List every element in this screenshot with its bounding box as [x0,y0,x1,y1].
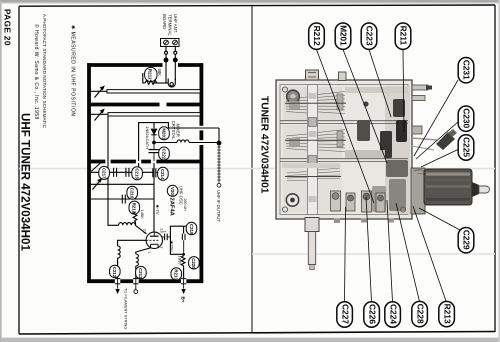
top mounting screw [306,70,319,80]
capacitor grid [122,195,125,204]
svg-text:R213: R213 [174,269,179,280]
mixer probe loop [139,123,169,161]
capacitor C222 [149,144,160,161]
svg-text:C230: C230 [462,108,472,128]
svg-text:R213: R213 [442,304,452,324]
callout C230 [458,106,474,131]
chassis bottom tabs [334,219,394,224]
svg-text:M201: M201 [339,25,348,46]
capacitor trimmer 2 [126,168,129,177]
feedthrough cap 2 [133,279,138,290]
svg-text:R211: R211 [399,26,409,46]
svg-text:C222: C222 [161,149,166,160]
svg-text:C231: C231 [462,60,472,80]
wire line2 left drop [108,116,119,225]
tuned line 1 [91,90,201,93]
terminal filament arrow [116,289,120,293]
measured note [70,25,76,117]
label UHF OSC [178,186,183,205]
svg-text:R211: R211 [148,69,153,80]
chassis rail 2 [280,159,408,162]
right panel title TUNER 472V034H01 [259,96,270,194]
callout C227 [337,302,353,327]
label 1N82A CATH [145,126,150,149]
top edge shading [282,87,408,168]
wire filament left [118,240,147,246]
svg-text:UHF OSC: UHF OSC [178,186,183,205]
wire leader C229 [419,208,460,230]
svg-text:A PHOTOFACT STANDARD NOTATION: A PHOTOFACT STANDARD NOTATION SCHEMATIC [42,14,47,129]
callout M201 [159,127,170,140]
callout R213 chassis [439,301,455,326]
svg-text:.1: .1 [163,230,167,233]
capacitor C214 plates [153,168,158,177]
callout C223 chassis [361,23,377,49]
terminal filament ring [134,290,138,294]
bottom trimmers [331,191,386,212]
svg-text:C223: C223 [365,26,375,46]
wire leader R211 [403,50,404,133]
coil osc plate [119,223,147,234]
wire leader R213 chassis [413,206,446,301]
node UHF IF OUTPUT [216,190,221,222]
callout V201 [167,185,178,198]
svg-text:B+: B+ [181,297,186,303]
callout C216 [127,186,138,199]
svg-text:BOARD: BOARD [162,14,167,29]
svg-text:✱70V: ✱70V [169,241,174,252]
label 2AF4A [168,198,174,217]
resistor R212 zigzag [133,212,137,225]
callout M201 chassis [335,23,351,49]
svg-text:C212: C212 [112,267,117,278]
terminal pins right [412,85,432,134]
svg-text:1: 1 [147,252,151,254]
node IF jack [217,141,221,145]
wire ant left lead [164,47,168,84]
svg-text:C225: C225 [462,137,472,157]
tuning arrow osc [93,179,102,190]
copyright line [33,24,40,120]
svg-text:C228: C228 [415,304,425,324]
wire IF output tap [168,128,219,141]
svg-text:C215: C215 [134,168,139,179]
chassis top small tab [339,72,347,81]
tuning rod row1 [285,103,346,176]
callout C229 [458,228,474,253]
shield box outline [87,63,203,283]
wire cathode lead [136,248,151,254]
svg-text:C227: C227 [340,304,350,324]
wire divider tie [91,163,101,172]
svg-text:CRYSTAL: CRYSTAL [171,121,176,141]
wire leader M201 [343,50,387,164]
callout C225 [458,135,474,160]
callout R212 chassis [309,23,325,49]
svg-text:C226: C226 [367,304,377,324]
UHF ant terminal board label [162,14,178,36]
wire leader C223 [369,50,391,118]
svg-text:✱ MEASURED IN UHF POSITION: ✱ MEASURED IN UHF POSITION [70,25,76,117]
wire plate loop [170,226,186,254]
callout R213 [171,268,182,281]
callout C228 [412,301,428,326]
wire ant right lead [173,47,177,81]
value 148K [140,210,145,220]
callout R211 chassis [395,23,411,49]
page number text PAGE 20 [3,9,12,46]
capacitor grid cap [163,234,171,241]
front panel hole [286,194,298,206]
label 260 uH [183,199,187,212]
svg-text:C216: C216 [130,188,135,199]
svg-text:C229: C229 [462,230,472,250]
tuning arrow line 2 [95,110,104,121]
tuned line 2 [91,113,201,116]
feedthrough cap 3 [181,279,186,289]
coil filament choke 1 [118,246,121,279]
label .1 [163,230,167,233]
svg-text:3,5: 3,5 [143,229,147,234]
plates row 2 [286,130,345,152]
shield divider 2 [91,160,200,164]
svg-text:68K: 68K [157,69,162,77]
lug protruding right lower [411,196,425,208]
callout C213 [136,266,147,279]
shield divider 1 [91,103,200,107]
value 1800 [177,256,182,266]
capacitor C219 plates [182,234,185,253]
balun loop [166,79,175,88]
crystal diode M201 1N82A [151,129,157,144]
resistor R213 zigzag [181,256,185,280]
wire leader C224 [387,200,393,302]
label -7V [155,205,160,215]
callout C222 [159,147,170,160]
svg-text:PAGE 20: PAGE 20 [3,9,12,46]
shaft column [308,85,318,215]
title UHF TUNER 472V034H01 [19,113,32,251]
svg-text:R212: R212 [132,203,137,214]
callout C212 [110,265,121,278]
callout C224 [385,302,401,327]
svg-text:UHF ANT.: UHF ANT. [173,14,178,33]
svg-text:2AF4A: 2AF4A [168,198,174,217]
svg-text:CATH: CATH [145,139,150,149]
node plate junction [182,253,185,256]
tuning arrow line 1 [95,87,104,98]
svg-text:C217: C217 [101,168,106,179]
svg-text:R212: R212 [312,26,322,46]
callout C214 [158,167,169,180]
svg-text:260 UH: 260 UH [183,199,187,212]
svg-text:✱-7V: ✱-7V [155,205,160,215]
svg-text:C220: C220 [191,258,196,269]
oscillator tube body [411,168,490,214]
svg-text:C219: C219 [189,224,194,235]
wire leader C227 [345,207,346,302]
svg-text:C224: C224 [388,304,398,324]
wire leader C226 [366,197,372,302]
wire leader C231 [414,80,458,156]
svg-text:TUNER 472V034H01: TUNER 472V034H01 [259,96,270,194]
wire shielded IF lead [217,145,221,187]
tuner chassis photo view [276,80,412,219]
svg-text:1N82A: 1N82A [145,126,150,138]
bearing hole top [287,90,300,103]
svg-text:© Howard W. Sams & Co., Inc. 1: © Howard W. Sams & Co., Inc. 1958 [33,24,40,120]
wire leader C230 [416,121,459,159]
svg-text:UHF IF OUTPUT: UHF IF OUTPUT [216,190,221,222]
plates row 1 [286,92,345,114]
svg-text:7: 7 [159,247,163,249]
callout C215 [132,167,143,180]
pin labels [143,228,164,253]
wire leader R212 [317,50,375,204]
svg-text:UHF TUNER 472V034H01: UHF TUNER 472V034H01 [19,113,32,251]
label B+ [181,297,186,303]
plates row 3 [287,168,340,181]
label TO FILAMENT STRING [123,288,128,329]
coil filament choke 2 [136,254,139,279]
value 68K [157,69,162,77]
svg-text:1800: 1800 [177,256,182,266]
callout C226 [364,302,380,327]
capacitor trimmer 1 [114,168,117,177]
mixer section parts [345,99,408,212]
svg-text:TERMINAL: TERMINAL [168,14,173,36]
svg-text:V201: V201 [170,187,175,198]
oscillator row 3 wire [91,163,154,232]
photofact note [42,14,47,129]
terminal board TB [161,39,180,47]
resistor R211 [145,67,157,84]
wire leader C225 [421,149,459,167]
svg-text:C214: C214 [160,169,165,180]
wire R211 leads [143,73,166,83]
svg-text:TO FILAMENT STRING: TO FILAMENT STRING [123,288,128,329]
trimmer protruding right [412,129,457,150]
callout C220 [189,257,200,270]
callout C219 [186,222,197,235]
svg-text:148K: 148K [140,210,145,220]
oscillator row 1 wire [91,163,154,172]
tube V201 triode [146,232,162,248]
tuning shaft [305,218,319,270]
oscillator row 2 wire [91,183,154,185]
chassis corner screws [282,87,405,212]
terminal B+ arrow [182,289,186,293]
callout C217 [99,166,110,179]
callout C231 [458,58,474,83]
svg-text:M201: M201 [161,128,166,140]
label 70V [169,241,174,252]
wire leader C228 [396,203,420,302]
label CRYSTAL MIXER [171,121,181,141]
chassis rail 1 [280,121,408,124]
svg-text:C213: C213 [138,268,143,279]
callout R212 [129,201,140,214]
coil L mixer output [155,140,217,143]
svg-text:MIXER: MIXER [176,124,181,137]
feedthrough cap 1 [115,279,120,289]
